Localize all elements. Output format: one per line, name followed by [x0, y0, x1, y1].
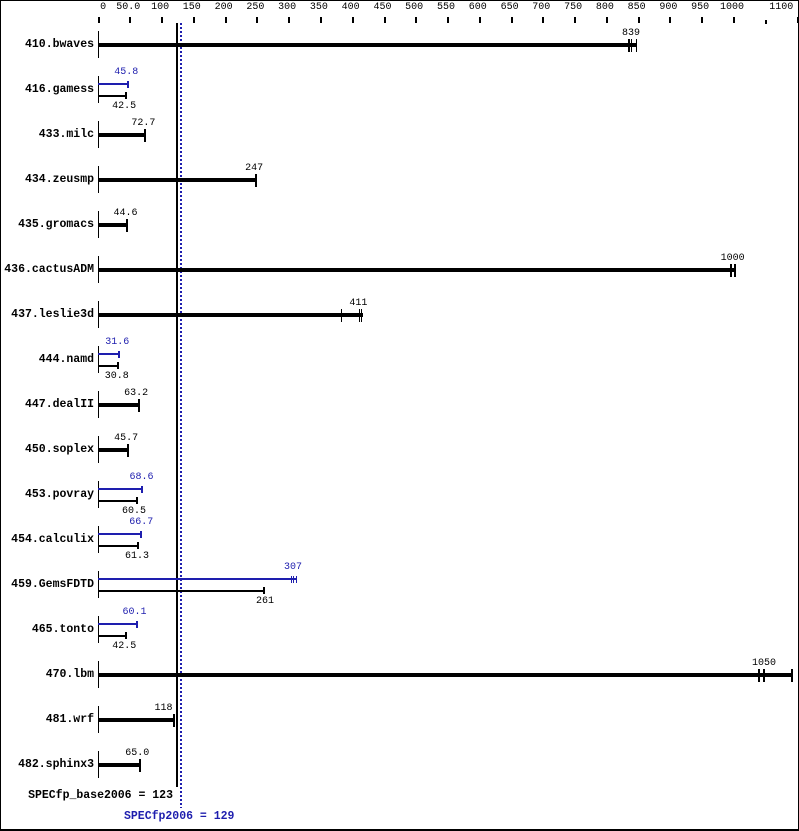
row 450.soplex	[1, 443, 94, 457]
summary: base metric	[1, 789, 173, 803]
top axis scale	[83, 2, 123, 14]
row 444.namd	[1, 353, 94, 367]
row 416.gamess	[1, 83, 94, 97]
row 447.dealII	[1, 398, 94, 412]
row 433.milc	[1, 128, 94, 142]
row 481.wrf	[1, 713, 94, 727]
row 453.povray	[1, 488, 94, 502]
row 482.sphinx3	[1, 758, 94, 772]
row 434.zeusmp	[1, 173, 94, 187]
row 437.leslie3d	[1, 308, 94, 322]
row 454.calculix	[1, 533, 94, 547]
peak median line (129, dotted blue)	[180, 23, 182, 808]
row 470.lbm	[1, 668, 94, 682]
row 459.GemsFDTD	[1, 578, 94, 592]
row 465.tonto	[1, 623, 94, 637]
row 410.bwaves	[1, 38, 94, 52]
summary: peak metric	[124, 810, 234, 824]
base median line (123)	[176, 23, 178, 787]
row 435.gromacs	[1, 218, 94, 232]
row 436.cactusADM	[1, 263, 94, 277]
